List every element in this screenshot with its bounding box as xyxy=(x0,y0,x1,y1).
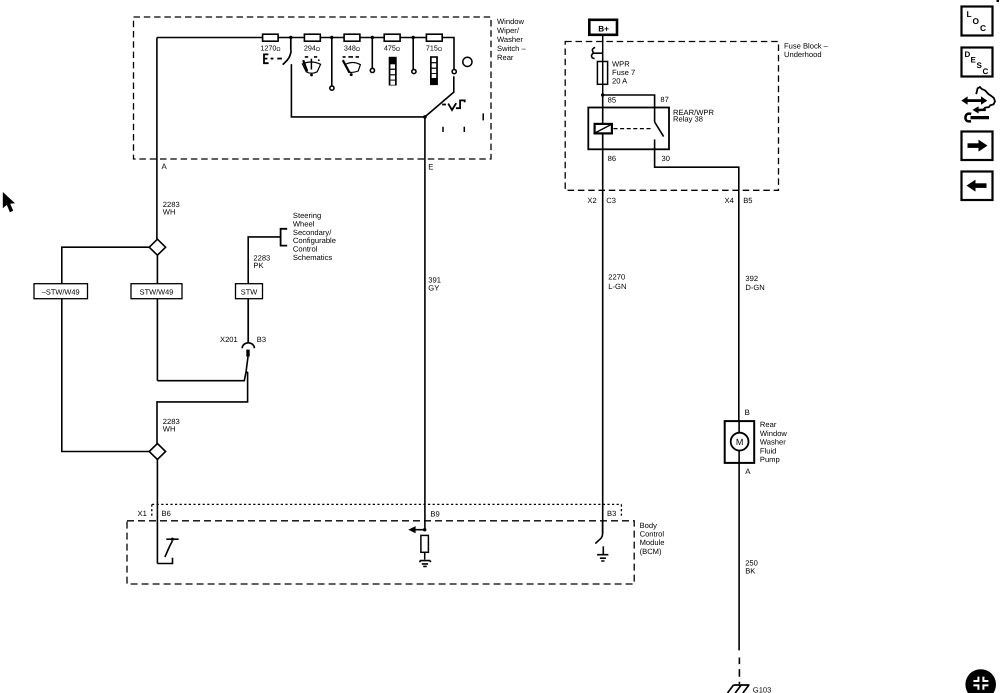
wire 85 into coil xyxy=(602,95,604,190)
connector X201 B3 male pin xyxy=(246,350,249,357)
wire label 2283 WH lower xyxy=(163,417,180,434)
signal ground B9 xyxy=(420,561,431,567)
relay contact arm xyxy=(655,108,739,191)
box STW/W49 xyxy=(131,284,182,299)
svg-text:X2: X2 xyxy=(587,196,596,205)
svg-text:Body: Body xyxy=(640,521,658,530)
BCM B6 input contact xyxy=(157,539,178,563)
toolbar button DESC xyxy=(962,48,993,77)
off-position contact with E label xyxy=(283,38,292,65)
junction dot E xyxy=(423,115,427,119)
contact terminal under 715 xyxy=(452,70,456,74)
svg-text:PK: PK xyxy=(253,261,263,270)
svg-text:GY: GY xyxy=(428,283,439,292)
label E with dashes xyxy=(264,54,282,63)
svg-text:Washer: Washer xyxy=(497,35,523,44)
svg-text:E: E xyxy=(428,163,433,172)
svg-text:X1: X1 xyxy=(138,509,147,518)
wire from pin to splice xyxy=(157,357,248,444)
svg-text:Window: Window xyxy=(497,17,525,26)
bar gauge icon delay high xyxy=(430,56,438,85)
svg-text:STW: STW xyxy=(241,288,257,297)
svg-text:392: 392 xyxy=(745,274,758,283)
resistor 348 ohm xyxy=(344,34,360,41)
contact terminal under 475 xyxy=(412,38,416,74)
svg-text:G103: G103 xyxy=(753,686,772,693)
intermittent pulse symbol xyxy=(442,100,465,110)
label Body Control Module BCM xyxy=(640,521,665,556)
svg-text:WH: WH xyxy=(163,207,176,216)
svg-text:C: C xyxy=(980,23,986,33)
wiper icon low xyxy=(302,57,320,77)
resistor 294 ohm xyxy=(304,34,320,41)
svg-text:B3: B3 xyxy=(257,335,266,344)
wire B+ down xyxy=(602,35,604,62)
resistor 475 ohm xyxy=(384,34,400,41)
svg-text:Relay 38: Relay 38 xyxy=(673,114,703,123)
wire terminal A vertical xyxy=(156,38,158,240)
label WPR Fuse 7 20 A xyxy=(612,60,635,86)
pump wire through xyxy=(738,421,740,463)
BCM B3 input contact xyxy=(595,521,602,543)
svg-text:86: 86 xyxy=(608,154,616,163)
svg-text:B9: B9 xyxy=(430,510,439,519)
svg-text:WH: WH xyxy=(163,425,176,434)
svg-text:X201: X201 xyxy=(220,335,238,344)
BCM internal resistor xyxy=(421,535,429,559)
svg-text:B+: B+ xyxy=(598,25,609,34)
wire label 250 BK xyxy=(745,558,758,575)
wire label 391 GY xyxy=(428,275,441,292)
pump box xyxy=(725,421,755,463)
svg-text:Module: Module xyxy=(640,538,665,547)
wire 2270 L-GN down to BCM B3 xyxy=(602,190,604,533)
chassis ground B3 xyxy=(597,546,608,561)
toolbar button back arrow xyxy=(962,172,993,201)
wire label 2283 PK xyxy=(253,253,270,270)
svg-text:B: B xyxy=(745,408,750,417)
wiper icon high xyxy=(343,57,361,76)
inline connector squiggle xyxy=(592,47,603,58)
wire label 2283 WH xyxy=(163,200,180,217)
box STW xyxy=(236,284,263,299)
label Rear Window Washer Fluid Pump xyxy=(760,420,788,464)
toolbar icon trace wrench xyxy=(961,87,995,121)
svg-text:A: A xyxy=(745,467,751,476)
connector X201 B3 female arc xyxy=(242,343,254,348)
wire 392 D-GN down to pump B xyxy=(738,190,740,421)
svg-text:BK: BK xyxy=(745,567,755,576)
svg-text:C: C xyxy=(983,67,989,76)
relay coil xyxy=(595,124,612,133)
switch wiper arm xyxy=(425,76,454,117)
wire label 392 D-GN xyxy=(745,274,764,292)
dashed wire tail xyxy=(738,658,740,685)
svg-text:X4: X4 xyxy=(725,196,734,205)
contact terminal under 294 xyxy=(330,38,334,91)
contact terminal under 348 xyxy=(370,38,374,73)
svg-text:Wiper/: Wiper/ xyxy=(497,26,520,35)
svg-text:O: O xyxy=(973,16,980,26)
svg-text:A: A xyxy=(162,162,168,171)
BCM dashed box xyxy=(127,521,634,584)
mouse cursor xyxy=(3,192,15,212)
off-page bracket xyxy=(281,229,288,246)
open contact circle park xyxy=(463,57,472,66)
svg-text:B5: B5 xyxy=(743,196,752,205)
wire to BCM X1 B6 xyxy=(156,460,158,564)
wire STW up to bracket xyxy=(248,237,280,284)
wire STW/W49 down xyxy=(156,299,158,381)
splice diamond lower xyxy=(149,444,165,460)
svg-text:Rear: Rear xyxy=(497,53,514,62)
svg-text:B3: B3 xyxy=(607,509,616,518)
SECTION: wiper switch block xyxy=(134,17,492,159)
svg-text:L-GN: L-GN xyxy=(608,282,626,291)
wire 250 BK xyxy=(738,463,740,651)
svg-text:30: 30 xyxy=(662,154,670,163)
svg-text:D-GN: D-GN xyxy=(745,283,764,292)
svg-text:–STW/W49: –STW/W49 xyxy=(42,288,80,297)
splice diamond upper xyxy=(149,239,165,255)
BCM B9 output arrow xyxy=(415,529,425,531)
ground G103 xyxy=(728,685,750,693)
toolbar button LOC xyxy=(962,7,993,36)
wire switch common xyxy=(291,64,425,117)
svg-text:2270: 2270 xyxy=(608,273,625,282)
svg-text:STW/W49: STW/W49 xyxy=(140,288,174,297)
wire label 2270 L-GN xyxy=(608,273,626,291)
motor circle M xyxy=(731,433,749,451)
label REAR/WPR Relay 38 xyxy=(673,108,714,124)
svg-text:Switch –: Switch – xyxy=(497,44,526,53)
wire top bus xyxy=(157,38,454,70)
svg-text:L: L xyxy=(967,9,972,19)
svg-text:B6: B6 xyxy=(162,509,171,518)
svg-text:20 A: 20 A xyxy=(612,77,628,86)
wire STW down to X201 xyxy=(247,299,249,344)
svg-text:Rear: Rear xyxy=(760,420,777,429)
svg-text:M: M xyxy=(736,437,744,447)
svg-text:87: 87 xyxy=(660,95,668,104)
svg-text:(BCM): (BCM) xyxy=(640,547,662,556)
battery terminal B+ xyxy=(589,20,617,35)
svg-text:Schematics: Schematics xyxy=(293,253,332,262)
resistor 715 ohm xyxy=(426,34,442,41)
wire 391 GY from switch E to BCM B9 xyxy=(424,117,426,530)
relay box REAR/WPR Relay 38 xyxy=(588,108,669,150)
dashed box Fuse Block Underhood xyxy=(565,42,778,191)
svg-text:85: 85 xyxy=(608,96,616,105)
dashed box Window Wiper/Washer Switch Rear xyxy=(134,17,492,159)
svg-text:C3: C3 xyxy=(606,196,616,205)
pan icon bottom right xyxy=(965,669,996,693)
svg-text:Washer: Washer xyxy=(760,438,786,447)
label Fuse Block Underhood xyxy=(784,42,829,60)
resistor R-OFF 1270 ohm xyxy=(263,34,279,41)
bar gauge icon delay low xyxy=(389,57,397,86)
toolbar button next arrow xyxy=(962,132,993,161)
corner tick xyxy=(997,0,1000,2)
box -STW/W49 xyxy=(34,284,88,299)
wire to pin 87 xyxy=(603,95,655,108)
wire down to STW/W49 xyxy=(156,255,158,284)
junction dots on bus xyxy=(289,36,415,39)
svg-text:Underhood: Underhood xyxy=(784,50,822,59)
fuse WPR Fuse 7 20A xyxy=(597,62,607,96)
label Window Wiper/Washer Switch Rear xyxy=(497,17,526,62)
junction dot under fuse xyxy=(601,93,604,96)
connector face dotted line xyxy=(152,504,622,517)
svg-text:Pump: Pump xyxy=(760,455,780,464)
wire branch left upper xyxy=(62,247,149,451)
dashed actuation link xyxy=(614,128,653,130)
label Steering Wheel Secondary Configurable Control Schematics xyxy=(293,211,336,262)
detent tick marks xyxy=(443,113,483,132)
